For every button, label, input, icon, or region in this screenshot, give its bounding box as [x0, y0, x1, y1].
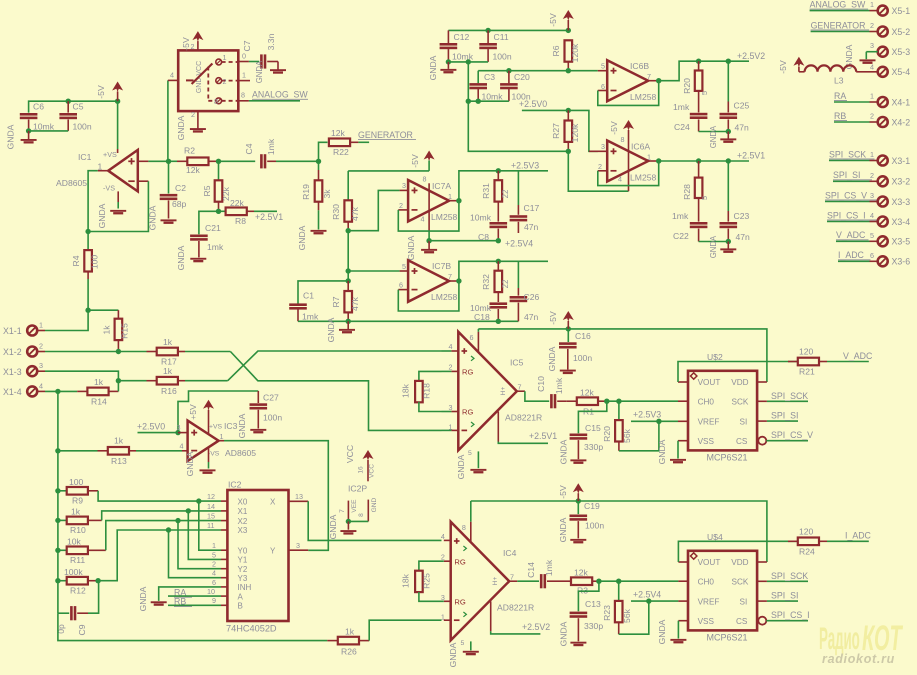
svg-text:C6: C6 — [33, 102, 44, 112]
IC2P VEE pin — [339, 499, 358, 522]
wire x468 vertical — [467, 62, 469, 101]
pin IC2 A 10 — [207, 587, 244, 601]
svg-text:GNDA: GNDA — [138, 586, 148, 611]
svg-text:3: 3 — [402, 181, 406, 190]
svg-text:5: 5 — [468, 450, 472, 457]
svg-text:R32: R32 — [481, 274, 491, 290]
wire X1-4 to R14 — [45, 390, 77, 392]
junction C1 node — [346, 278, 351, 283]
resistor R19 3k — [301, 161, 332, 229]
resistor R26 1k — [327, 627, 369, 657]
svg-text:C25: C25 — [734, 101, 750, 111]
capacitor C25 47n — [720, 61, 750, 132]
wire crossover R16 up — [228, 351, 442, 381]
svg-text:VDD: VDD — [731, 558, 748, 567]
svg-text:3.3n: 3.3n — [266, 33, 276, 50]
svg-text:X5-4: X5-4 — [892, 67, 911, 77]
svg-text:Y3: Y3 — [238, 574, 248, 583]
pin IC5 REF — [498, 412, 548, 444]
svg-text:8: 8 — [241, 91, 245, 100]
svg-text:8: 8 — [423, 175, 427, 184]
resistor R20b 56k — [602, 401, 632, 451]
svg-text:X1-3: X1-3 — [3, 367, 22, 377]
capacitor C20 — [500, 71, 531, 102]
pin switch 8 — [238, 91, 249, 101]
junction C20 top — [506, 68, 511, 73]
svg-text:X3: X3 — [238, 526, 248, 535]
pin IC5 out — [517, 390, 525, 392]
svg-text:1: 1 — [870, 150, 874, 159]
op-amp IC6A LM258 — [598, 141, 656, 183]
pin IC5 3 — [451, 411, 458, 413]
pin IC4 1 — [444, 619, 451, 621]
resistor R6 120k — [551, 40, 580, 70]
svg-text:CH0: CH0 — [698, 578, 715, 587]
svg-text:7: 7 — [510, 573, 514, 582]
svg-text:100n: 100n — [263, 413, 282, 423]
svg-text:4: 4 — [212, 569, 216, 578]
pin IC2 Y2 2 — [212, 560, 248, 574]
connector X3-6 — [838, 251, 910, 267]
svg-text:RG: RG — [454, 558, 465, 567]
resistor R30 47k — [331, 171, 360, 231]
wire IC7B out rail — [459, 261, 548, 281]
resistor R17 1k — [147, 337, 186, 367]
junction C11 top — [485, 28, 490, 33]
svg-text:R28: R28 — [682, 184, 692, 200]
svg-text:120: 120 — [799, 526, 814, 536]
svg-text:C4: C4 — [244, 143, 254, 154]
svg-text:IC7A: IC7A — [432, 181, 451, 191]
capacitor C14 1mk — [526, 559, 554, 588]
wire to R15 — [88, 309, 118, 311]
svg-text:GNDA: GNDA — [547, 346, 557, 371]
svg-text:C21: C21 — [205, 223, 221, 233]
pin IC6B out — [648, 80, 659, 82]
ground GNDA R19 — [297, 225, 327, 250]
junction R11 rail — [55, 548, 60, 553]
resistor R4 100 — [71, 232, 100, 311]
ground GNDA C13 — [559, 621, 587, 646]
svg-text:22: 22 — [501, 280, 510, 289]
svg-text:X4-1: X4-1 — [892, 97, 911, 107]
svg-text:+VS: +VS — [209, 423, 223, 430]
label RB — [168, 597, 221, 607]
wire R16 to cross — [185, 380, 228, 382]
svg-text:C3: C3 — [484, 72, 495, 82]
svg-text:+VS: +VS — [103, 150, 117, 159]
svg-text:3: 3 — [870, 191, 874, 200]
op-amp IC1 AD8605 — [56, 150, 138, 193]
svg-text:IC7B: IC7B — [432, 261, 451, 271]
label +2.5V1 IC5 — [529, 431, 557, 441]
svg-text:SI: SI — [740, 417, 748, 426]
wire C24/C25 bottoms — [699, 131, 729, 133]
wire IC1 +in to R2 node — [148, 160, 168, 162]
connector X1-4 — [3, 381, 45, 397]
svg-text:X0: X0 — [238, 497, 248, 506]
svg-text:AD8221R: AD8221R — [497, 603, 534, 613]
svg-text:R10: R10 — [70, 525, 86, 535]
svg-text:GNDA: GNDA — [326, 317, 336, 342]
junction R32 top — [496, 259, 501, 264]
svg-text:1: 1 — [870, 0, 874, 9]
svg-text:MCP6S21: MCP6S21 — [707, 452, 748, 462]
junction X3/Y3 — [166, 527, 171, 532]
svg-text:ANALOG_SW: ANALOG_SW — [810, 0, 866, 9]
wire -5V rail IC5/U$2 — [478, 329, 767, 382]
svg-text:4: 4 — [180, 442, 184, 451]
pin IC5 1 — [451, 429, 458, 431]
svg-text:+2.5V3: +2.5V3 — [511, 161, 539, 171]
ground GNDA C25 — [709, 125, 736, 148]
svg-text:1: 1 — [220, 432, 224, 441]
pin IC2 X1 14 — [207, 502, 248, 516]
svg-text:SPI_SI: SPI_SI — [833, 170, 860, 180]
capacitor C2 — [160, 161, 187, 218]
svg-text:GNDA: GNDA — [559, 621, 569, 646]
pin U$2 SCK — [757, 400, 767, 402]
svg-text:1k: 1k — [94, 377, 104, 387]
svg-text:+2.5V4: +2.5V4 — [505, 238, 533, 248]
wire IC5 out jog — [525, 391, 549, 401]
svg-text:RB: RB — [834, 111, 846, 121]
pin U$2 VDD — [757, 381, 767, 383]
svg-text:GNDA: GNDA — [448, 642, 458, 667]
junction C4/R22/R19 — [316, 159, 321, 164]
svg-text:R15: R15 — [120, 323, 130, 339]
svg-text:SPI_CS_I: SPI_CS_I — [827, 210, 866, 220]
wire IC7B feedback — [398, 281, 459, 311]
connector X1-1 — [3, 321, 45, 337]
junction X0/Y0 — [196, 498, 201, 503]
svg-text:68p: 68p — [172, 199, 187, 209]
svg-text:SPI_SCK: SPI_SCK — [829, 149, 866, 159]
junction R2 left / C2 — [166, 159, 171, 164]
svg-text:GNDA: GNDA — [297, 225, 307, 250]
svg-text:R8: R8 — [235, 216, 246, 226]
svg-text:GENERATOR: GENERATOR — [358, 130, 413, 140]
svg-text:5: 5 — [870, 231, 874, 240]
svg-text:47k: 47k — [350, 206, 360, 221]
wire +2.5V1 net — [659, 160, 749, 162]
wire X5-3 to ground — [866, 52, 877, 60]
wire IC7A out to +2.5V3 — [459, 171, 548, 201]
svg-text:H+: H+ — [500, 387, 507, 396]
wire R10 to X1/Y1 — [102, 511, 221, 521]
svg-text:100n: 100n — [573, 353, 592, 363]
pin U$4 CS bubble — [758, 617, 766, 625]
pin U$2 VREF — [678, 420, 688, 422]
junction R20 top — [696, 59, 701, 64]
junction R13 rail — [55, 448, 60, 453]
pin IC5 V+ riser — [477, 329, 479, 352]
junction IC1 out/R4 — [85, 229, 90, 234]
pin IC2 Y1 5 — [212, 550, 248, 564]
capacitor C9 — [56, 581, 99, 636]
svg-text:SPI_CS_I: SPI_CS_I — [771, 610, 810, 620]
svg-text:INH: INH — [238, 583, 252, 592]
wire R27 bottom to IC6A pin4 — [568, 151, 628, 191]
svg-text:1: 1 — [212, 541, 216, 550]
svg-text:5: 5 — [700, 196, 709, 200]
supply -5V arrow IC6A — [609, 120, 634, 191]
svg-text:C26: C26 — [524, 292, 540, 302]
wire IC6B out to +2.5V2 — [659, 61, 749, 80]
svg-text:C17: C17 — [524, 203, 540, 213]
svg-text:VSS: VSS — [698, 617, 715, 626]
svg-text:ANALOG_SW: ANALOG_SW — [252, 90, 308, 100]
svg-text:SI: SI — [740, 597, 748, 606]
svg-text:C16: C16 — [575, 331, 591, 341]
resistor R31 22 — [481, 171, 510, 222]
wire R30 to IC7A +in — [348, 190, 399, 230]
svg-text:1k: 1k — [163, 366, 173, 376]
ground GNDA C19 — [558, 517, 586, 543]
pin IC7B out — [449, 280, 459, 282]
svg-text:-5V: -5V — [609, 121, 619, 135]
svg-text:GNDA: GNDA — [428, 55, 438, 80]
connector X3-2 — [833, 171, 910, 187]
pin IC6A -in — [598, 170, 607, 172]
pin IC4 4 — [444, 539, 451, 541]
wire IC1 -VS to ground — [117, 191, 119, 208]
svg-text:12k: 12k — [186, 165, 201, 175]
pin U$4 VREF — [678, 600, 688, 602]
svg-text:VEE: VEE — [351, 499, 358, 513]
svg-text:100: 100 — [90, 255, 100, 270]
ground GNDA IC2P — [328, 514, 356, 539]
label I_ADC net — [838, 250, 871, 260]
svg-text:3: 3 — [449, 403, 453, 412]
wire R12 to X3/Y3 — [98, 530, 221, 581]
pin IC1 +in — [138, 160, 149, 162]
svg-text:+2.5V1: +2.5V1 — [529, 431, 557, 441]
wire R14 up to junction — [117, 381, 119, 392]
junction IC6B out — [656, 78, 661, 83]
svg-text:GNDA: GNDA — [328, 514, 338, 539]
svg-text:8: 8 — [358, 513, 365, 517]
connector X1-3 — [3, 361, 45, 377]
svg-text:2: 2 — [449, 363, 453, 372]
svg-text:3k: 3k — [322, 189, 332, 199]
wire INH to ground — [159, 587, 221, 601]
ground GNDA IC7A — [406, 235, 437, 260]
svg-text:22k: 22k — [230, 198, 245, 208]
pin switch 0 — [238, 52, 249, 62]
capacitor C26 47n — [510, 261, 540, 322]
svg-text:C2: C2 — [175, 183, 186, 193]
pin IC7A +in — [400, 189, 409, 191]
label SPI_SCK U$4 — [767, 571, 808, 582]
svg-text:100n: 100n — [73, 122, 92, 132]
svg-text:VCC: VCC — [345, 445, 355, 463]
op-amp IC5 AD8221R — [449, 332, 543, 451]
junction R4/R15/X1-1 — [85, 308, 90, 313]
junction R5/C21/R8 — [216, 209, 221, 214]
pin IC4 2 — [444, 560, 451, 562]
svg-text:LM258: LM258 — [630, 92, 656, 102]
svg-text:X2: X2 — [238, 517, 248, 526]
wire Y3 drop — [169, 530, 222, 578]
svg-text:C13: C13 — [585, 599, 601, 609]
pin U$4 VOUT — [678, 561, 688, 563]
svg-text:X1-1: X1-1 — [3, 326, 22, 336]
junction R3/R23 — [616, 579, 621, 584]
svg-text:10mk: 10mk — [33, 122, 55, 132]
resistor R21 120 — [788, 347, 869, 377]
label ANALOG_SW — [249, 90, 309, 101]
svg-text:1mk: 1mk — [207, 242, 224, 252]
resistor R24 120 — [788, 526, 869, 556]
wire IC6A feedback — [598, 161, 659, 186]
svg-text:10mk: 10mk — [482, 92, 504, 102]
junction C6 ground — [26, 128, 31, 133]
svg-text:9: 9 — [212, 596, 216, 605]
svg-text:14: 14 — [207, 502, 215, 511]
svg-text:R25: R25 — [422, 573, 432, 589]
svg-text:radiokot.ru: radiokot.ru — [822, 652, 895, 666]
resistor R1 12k — [567, 387, 607, 416]
analog switch IC box — [178, 50, 238, 111]
svg-text:GNDA: GNDA — [709, 125, 718, 148]
wire -5V rail IC4/U$4 — [471, 501, 767, 562]
svg-text:100: 100 — [69, 477, 84, 487]
wire R17 to cross — [185, 351, 230, 353]
svg-text:R13: R13 — [111, 456, 127, 466]
label +2.5V4 U$4 — [633, 589, 661, 599]
svg-text:1mk: 1mk — [554, 377, 564, 394]
svg-text:R17: R17 — [161, 357, 177, 367]
junction C19 node — [576, 498, 581, 503]
svg-text:R16: R16 — [161, 386, 177, 396]
label +2.5V1 at R8 — [255, 212, 283, 222]
svg-text:IC2: IC2 — [228, 480, 242, 490]
IC2 74HC4052D box — [226, 480, 289, 634]
svg-text:4: 4 — [870, 211, 874, 220]
svg-text:X3-6: X3-6 — [892, 257, 911, 267]
wire x468 down to R27 row — [468, 101, 568, 151]
pin IC4 V- ground — [461, 640, 471, 650]
resistor R23 56k — [602, 581, 632, 634]
op-amp IC7A LM258 — [399, 180, 457, 222]
connector X5-3 — [870, 41, 910, 57]
svg-text:6: 6 — [870, 251, 874, 260]
svg-text:Y2: Y2 — [238, 565, 248, 574]
wire C13 branch — [578, 581, 599, 611]
svg-text:LM258: LM258 — [431, 292, 457, 302]
pin switch 4 — [168, 71, 178, 81]
svg-text:330p: 330p — [584, 442, 603, 452]
svg-text:SCK: SCK — [732, 398, 749, 407]
wire R9 to X0/Y0 — [98, 491, 221, 501]
wire crossover R17 down — [230, 352, 441, 431]
wire X out to IC4 + — [308, 501, 441, 540]
wire R3 to U$4 CH0 — [599, 580, 679, 582]
wire to IC7B +in — [348, 270, 399, 272]
svg-text:5: 5 — [402, 262, 406, 271]
svg-text:11: 11 — [207, 521, 214, 530]
svg-text:V_ADC: V_ADC — [836, 230, 866, 240]
svg-text:-5V: -5V — [548, 311, 558, 325]
pin IC2 X3 11 — [207, 521, 248, 535]
svg-text:VOUT: VOUT — [698, 558, 721, 567]
svg-text:1mk: 1mk — [672, 211, 689, 221]
svg-text:1mk: 1mk — [544, 559, 554, 576]
svg-text:RA: RA — [834, 91, 846, 101]
svg-text:5: 5 — [461, 640, 465, 647]
svg-text:330p: 330p — [584, 621, 603, 631]
svg-text:5: 5 — [601, 61, 605, 70]
junction C25 top — [726, 59, 731, 64]
connector X3-4 — [827, 211, 910, 227]
svg-text:C8: C8 — [478, 232, 489, 242]
capacitor C24 1mk — [673, 102, 707, 132]
svg-text:X3-3: X3-3 — [892, 197, 911, 207]
svg-text:X: X — [270, 498, 276, 507]
junction R12/C9 — [95, 578, 100, 583]
supply +5V arrow IC3 — [188, 400, 214, 434]
svg-text:R19: R19 — [301, 184, 311, 200]
svg-text:R14: R14 — [91, 397, 107, 407]
pin IC1 -in — [138, 180, 149, 182]
pin IC1 out — [98, 170, 109, 172]
wire +2.5V0 stub — [138, 432, 179, 434]
pin IC3 +in — [178, 432, 188, 434]
svg-text:VSS: VSS — [698, 437, 715, 446]
label +2.5V4 mid — [505, 238, 533, 248]
svg-text:R23: R23 — [602, 605, 612, 621]
junction C25 ground — [726, 129, 731, 134]
svg-text:3: 3 — [601, 142, 605, 151]
junction R2/R5/C4 — [216, 159, 221, 164]
svg-text:GNDA: GNDA — [176, 245, 186, 270]
svg-text:56k: 56k — [622, 428, 632, 443]
svg-text:AD8221R: AD8221R — [505, 413, 542, 423]
svg-text:Y: Y — [270, 547, 276, 556]
svg-text:CS: CS — [736, 437, 748, 446]
svg-text:4: 4 — [618, 175, 622, 184]
resistor R2 12k — [169, 146, 219, 176]
junction C18 bottom — [496, 319, 501, 324]
svg-text:4: 4 — [39, 381, 43, 390]
IC2P VCC arrow — [345, 445, 376, 494]
resistor R28 5 — [682, 161, 709, 222]
ground GNDA C15 — [559, 439, 587, 464]
svg-text:2: 2 — [870, 171, 874, 180]
wire +2.5V4 to VREF — [631, 600, 678, 602]
supply -5V arrow C16 — [548, 311, 574, 329]
svg-text:8: 8 — [214, 97, 218, 106]
junction IC7A out — [456, 198, 461, 203]
wire C3/C20 bottoms — [468, 100, 509, 102]
supply -5V arrow C19 — [558, 483, 584, 501]
svg-text:C11: C11 — [494, 32, 509, 42]
wire IC4 out — [517, 580, 539, 582]
pin IC7B +in — [400, 270, 409, 272]
svg-text:2: 2 — [598, 162, 602, 171]
svg-text:LM258: LM258 — [431, 212, 457, 222]
svg-text:SPI_SCK: SPI_SCK — [771, 571, 808, 581]
label SPI_SCK U$2 — [767, 391, 808, 402]
wire Y1 drop — [188, 511, 221, 560]
capacitor C10 1mk — [536, 376, 567, 408]
junction R27 top — [566, 108, 571, 113]
label GENERATOR — [358, 130, 416, 140]
label +2.5V1 top — [737, 151, 765, 161]
svg-text:IC3: IC3 — [224, 421, 238, 431]
svg-text:C24: C24 — [674, 122, 690, 132]
